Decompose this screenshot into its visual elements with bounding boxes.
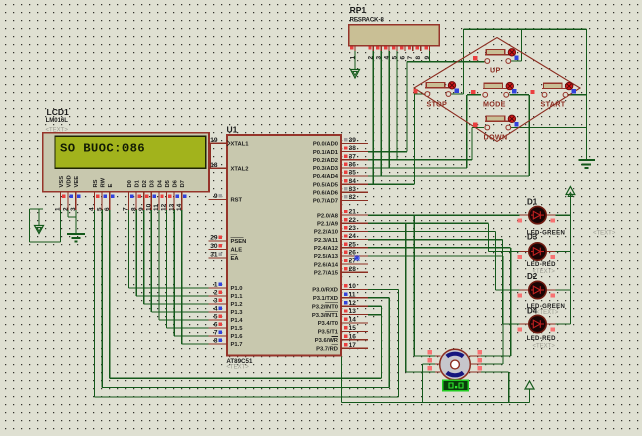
wire P2.4 to motor right top	[368, 247, 511, 249]
svg-text:4: 4	[89, 207, 96, 211]
svg-text:<TEXT>: <TEXT>	[533, 344, 556, 350]
svg-text:D6: D6	[173, 179, 179, 187]
svg-text:D3: D3	[527, 232, 538, 241]
svg-text:P2.7/A15: P2.7/A15	[314, 271, 339, 277]
svg-text:7: 7	[214, 330, 218, 337]
wire P3.3 stub join	[368, 314, 381, 316]
push button DOWN	[485, 125, 490, 130]
svg-text:DOWN: DOWN	[484, 133, 508, 142]
svg-text:P3.6/WR: P3.6/WR	[315, 338, 339, 344]
svg-text:D2: D2	[142, 180, 148, 187]
svg-text:37: 37	[349, 153, 357, 160]
svg-text:MODE: MODE	[483, 100, 506, 109]
svg-text:39: 39	[349, 137, 357, 144]
U1 pin 21 P2.0/A8	[341, 214, 368, 216]
wire motor right bottom to bottom bus	[481, 371, 509, 373]
svg-text:10: 10	[146, 203, 153, 211]
wire P2.2 to LED D2	[368, 230, 496, 232]
RP1 pin 6	[404, 46, 406, 51]
wire motor left mid to bottom bus	[422, 363, 439, 365]
svg-text:D1: D1	[135, 179, 141, 187]
wire LCD RW to P3.1	[101, 209, 103, 388]
svg-text:28: 28	[349, 266, 357, 273]
svg-text:P1.5: P1.5	[231, 326, 244, 332]
svg-text:P1.7: P1.7	[231, 342, 243, 348]
U1 pin 2 P1.1	[208, 295, 227, 297]
push button UP	[485, 59, 490, 64]
svg-text:34: 34	[349, 178, 357, 185]
svg-text:3: 3	[70, 207, 77, 211]
svg-text:12: 12	[349, 300, 357, 307]
svg-text:P3.1/TXD: P3.1/TXD	[313, 296, 338, 302]
RP1 pin 1	[354, 46, 356, 51]
wire LED right stubs	[556, 214, 571, 216]
svg-text:XTAL2: XTAL2	[231, 166, 249, 172]
svg-text:P3.2/INT0: P3.2/INT0	[312, 304, 338, 310]
svg-text:P2.0/A8: P2.0/A8	[317, 213, 339, 219]
U1 pin 35 P0.4/AD4	[341, 175, 368, 177]
svg-text:LED-RED: LED-RED	[527, 336, 556, 342]
svg-text:VDD: VDD	[67, 175, 73, 187]
svg-text:5: 5	[391, 56, 398, 60]
svg-text:9: 9	[214, 193, 218, 200]
svg-text:P2.4/A12: P2.4/A12	[314, 246, 338, 252]
svg-text:32: 32	[349, 194, 357, 201]
wire bottom bus	[342, 402, 530, 404]
ground arrow below LCD pin1	[35, 226, 44, 234]
svg-text:29: 29	[210, 235, 218, 242]
svg-text:RS: RS	[93, 179, 99, 187]
svg-text:2: 2	[214, 290, 218, 297]
motor pin stubs	[435, 355, 441, 357]
U1 pin 15 P3.5/T1	[341, 330, 368, 332]
wire P2.3 to LED D4	[368, 239, 503, 241]
U1 pin 38 P0.1/AD1	[341, 151, 368, 153]
U1 pin 25 P2.4/A12	[341, 247, 368, 249]
LED D1 LED-GREEN	[520, 214, 529, 216]
wire LCD data staircase D0-D7 to P1.0-P1.7	[128, 209, 130, 288]
svg-text:LED-RED: LED-RED	[527, 262, 556, 268]
svg-text:U1: U1	[227, 125, 238, 135]
svg-text:10: 10	[349, 283, 357, 290]
LCD screen	[55, 136, 206, 168]
U1 pin 28 P2.7/A15	[341, 271, 368, 273]
svg-text:P1.2: P1.2	[231, 302, 243, 308]
svg-text:P2.3/A11: P2.3/A11	[314, 238, 339, 244]
U1 pin 6 P1.5	[208, 327, 227, 329]
RP1 pin 5	[396, 46, 398, 51]
ground below LCD pin3	[67, 233, 85, 235]
wire top rail UP.right MODE-P0.3 START.right	[464, 28, 587, 30]
svg-text:START: START	[541, 100, 566, 109]
U1 pin 18 XTAL2	[208, 167, 227, 169]
motor pin pads	[428, 350, 432, 354]
RP1 pin 8	[420, 46, 422, 51]
RP1 pin 7	[412, 46, 414, 51]
svg-text:11: 11	[153, 204, 160, 211]
svg-text:11: 11	[349, 291, 356, 298]
svg-text:8: 8	[415, 56, 422, 60]
svg-text:P2.5/A13: P2.5/A13	[314, 254, 339, 260]
U1 pin 22 P2.1/A9	[341, 222, 368, 224]
RP1 pin 2	[372, 46, 374, 51]
svg-text:22: 22	[349, 217, 357, 224]
svg-text:6: 6	[104, 207, 111, 211]
svg-text:1: 1	[214, 282, 218, 289]
stepper motor	[440, 349, 471, 380]
svg-text:15: 15	[349, 325, 357, 332]
power arrow bottom	[525, 381, 534, 389]
svg-text:VEE: VEE	[74, 176, 80, 188]
U1 pin 12 P3.2/INT0	[341, 305, 368, 307]
U1 pin 26 P2.5/A13	[341, 255, 368, 257]
svg-text:P0.6/AD6: P0.6/AD6	[313, 191, 339, 197]
svg-text:XTAL1: XTAL1	[231, 141, 250, 147]
svg-text:P0.0/AD0: P0.0/AD0	[313, 142, 338, 148]
svg-text:D7: D7	[180, 180, 186, 187]
svg-text:9: 9	[424, 56, 431, 60]
svg-text:25: 25	[349, 241, 357, 248]
U1 pin 8 P1.7	[208, 343, 227, 345]
svg-text:3: 3	[376, 56, 383, 60]
RP1 pin 4	[388, 46, 390, 51]
svg-text:VSS: VSS	[59, 176, 65, 188]
svg-text:P3.5/T1: P3.5/T1	[318, 330, 339, 336]
svg-text:D2: D2	[527, 272, 538, 281]
svg-text:D4: D4	[157, 179, 163, 187]
svg-text:P1.0: P1.0	[231, 286, 243, 292]
junction marker blue cross	[354, 255, 360, 261]
svg-text:<TEXT>: <TEXT>	[536, 310, 559, 316]
svg-text:6: 6	[399, 56, 406, 60]
wire P0.1 RP1.6 RP1.9 STOP.right net	[368, 151, 407, 153]
svg-text:33: 33	[349, 186, 357, 193]
svg-text:UP: UP	[490, 66, 501, 75]
wire LCD E to P3.2	[109, 209, 111, 378]
wire P2.5 to motor right mid	[368, 255, 503, 257]
U1 pin 3 P1.2	[208, 303, 227, 305]
svg-text:1: 1	[349, 56, 356, 60]
wire LCD VSS ground loop	[60, 209, 62, 242]
svg-text:D3: D3	[150, 179, 156, 187]
U1 pin 1 P1.0	[208, 287, 227, 289]
svg-text:LCD1: LCD1	[47, 107, 69, 117]
svg-text:21: 21	[349, 209, 357, 216]
svg-text:RST: RST	[231, 198, 243, 204]
U1 pin 34 P0.5/AD5	[341, 183, 368, 185]
svg-text:36: 36	[349, 162, 357, 169]
svg-text:4: 4	[214, 306, 218, 313]
U1 pin 39 P0.0/AD0	[341, 143, 368, 145]
push button MODE	[483, 92, 488, 97]
svg-text:D0: D0	[127, 180, 133, 187]
svg-text:14: 14	[349, 317, 357, 324]
svg-text:P0.7/AD7: P0.7/AD7	[313, 199, 338, 205]
U1 pin 13 P3.3/INT1	[341, 314, 368, 316]
ground symbol right	[579, 159, 596, 161]
svg-text:SO BUOC:086: SO BUOC:086	[60, 142, 145, 156]
svg-text:RW: RW	[101, 177, 107, 187]
svg-text:P3.7/RD: P3.7/RD	[316, 346, 338, 352]
svg-text:7: 7	[123, 207, 130, 211]
wire diamond routing	[414, 38, 580, 142]
wire MODE.right DOWN.right to P0.4 and ground rail	[510, 94, 530, 96]
svg-text:9: 9	[138, 207, 145, 211]
svg-text:1: 1	[55, 207, 62, 211]
svg-text:16: 16	[349, 333, 357, 340]
wire LED anode rail	[569, 195, 571, 324]
svg-text:13: 13	[349, 308, 357, 315]
U1 pin 19 XTAL1	[208, 142, 227, 144]
U1 pin 29 PSEN	[208, 240, 227, 242]
svg-text:P0.1/AD1: P0.1/AD1	[313, 150, 339, 156]
wire P0.4 RP1.3 net	[368, 175, 529, 177]
svg-text:2: 2	[368, 56, 375, 60]
svg-text:35: 35	[349, 170, 357, 177]
svg-text:19: 19	[210, 137, 218, 144]
wire P0.2 RP1.5 DOWN.left net	[368, 159, 472, 161]
svg-text:RP1: RP1	[350, 5, 367, 15]
motor speed readout	[443, 380, 469, 391]
svg-text:4: 4	[384, 56, 391, 60]
svg-text:P1.1: P1.1	[231, 294, 244, 300]
wire P2.1 to LED D3 and motor	[368, 222, 489, 224]
wire XTAL1-XTAL2 link	[209, 143, 211, 168]
RP1 pin 3	[380, 46, 382, 51]
svg-text:31: 31	[210, 252, 218, 259]
push button STOP	[425, 92, 430, 97]
U1 pin 5 P1.4	[208, 319, 227, 321]
svg-text:6: 6	[214, 322, 218, 329]
LED D4 LED-RED	[520, 323, 529, 325]
svg-text:P1.6: P1.6	[231, 334, 244, 340]
svg-text:2: 2	[62, 207, 69, 211]
U1 pin 30 ALE	[208, 249, 227, 251]
svg-text:38: 38	[349, 145, 357, 152]
svg-text:P0.4/AD4: P0.4/AD4	[313, 174, 339, 180]
svg-text:<TEXT>: <TEXT>	[226, 364, 249, 370]
svg-text:RESPACK-8: RESPACK-8	[350, 17, 385, 23]
svg-text:7: 7	[407, 56, 414, 60]
svg-text:P3.4/T0: P3.4/T0	[318, 321, 338, 327]
svg-text:P1.3: P1.3	[231, 310, 244, 316]
svg-text:3: 3	[214, 298, 218, 305]
U1 pin 10 P3.0/RXD	[341, 288, 368, 290]
U1 pin 32 P0.7/AD7	[341, 200, 368, 202]
svg-text:13: 13	[168, 203, 175, 211]
U1 pin 16 P3.6/WR	[341, 339, 368, 341]
svg-text:EA: EA	[231, 256, 240, 262]
svg-text:P2.1/A9: P2.1/A9	[317, 222, 339, 228]
LCD pins with numbers	[60, 192, 62, 210]
svg-text:E: E	[108, 184, 114, 188]
svg-text:27: 27	[349, 258, 357, 265]
push button START	[542, 92, 547, 97]
wire P2.0 to LED D1 and motor	[368, 214, 520, 216]
U1 pin 37 P0.2/AD2	[341, 159, 368, 161]
svg-text:14: 14	[176, 203, 183, 211]
wire P0.3 RP1.4 MODE.left net	[368, 167, 467, 169]
LED D3 LED-RED	[520, 251, 529, 253]
svg-text:5: 5	[96, 207, 103, 211]
LED D2 LED-GREEN	[520, 289, 529, 291]
svg-text:12: 12	[161, 203, 168, 211]
wire P0.5 RP1.2 RP1.7 STOP.left net	[368, 183, 414, 185]
svg-text:P2.6/A14: P2.6/A14	[314, 262, 339, 268]
svg-text:PSEN: PSEN	[231, 239, 247, 245]
U1 pin 7 P1.6	[208, 335, 227, 337]
U1 pin 33 P0.6/AD6	[341, 191, 368, 193]
svg-text:23: 23	[349, 225, 357, 232]
U1 pin 24 P2.3/A11	[341, 239, 368, 241]
svg-text:<TEXT>: <TEXT>	[593, 231, 616, 237]
U1 pin 27 P2.6/A14	[341, 263, 368, 265]
svg-text:8: 8	[130, 207, 137, 211]
svg-text:P3.0/RXD: P3.0/RXD	[312, 288, 338, 294]
U1 pin 23 P2.2/A10	[341, 230, 368, 232]
svg-text:5: 5	[214, 314, 218, 321]
svg-text:24: 24	[349, 233, 357, 240]
svg-text:P0.3/AD3: P0.3/AD3	[313, 166, 339, 172]
svg-text:P2.2/A10: P2.2/A10	[314, 230, 338, 236]
wire LCD RS to P3.0	[94, 209, 96, 397]
svg-text:P0.2/AD2: P0.2/AD2	[313, 158, 338, 164]
RP1 pin 9	[429, 46, 431, 51]
svg-text:LM016L: LM016L	[46, 118, 69, 124]
svg-text:P1.4: P1.4	[231, 318, 244, 324]
svg-text:P0.5/AD5: P0.5/AD5	[313, 182, 339, 188]
U1 pin 17 P3.7/RD	[341, 347, 368, 349]
svg-text:8: 8	[214, 338, 218, 345]
svg-text:30: 30	[210, 243, 218, 250]
U1 pin 36 P0.3/AD3	[341, 167, 368, 169]
svg-text:17: 17	[349, 342, 357, 349]
U1 pin 4 P1.3	[208, 311, 227, 313]
svg-text:STOP: STOP	[427, 100, 448, 109]
svg-text:P3.3/INT1: P3.3/INT1	[312, 313, 339, 319]
wire LCD VDD-VEE	[67, 209, 69, 217]
svg-text:ALE: ALE	[231, 248, 243, 254]
U1 pin 14 P3.4/T0	[341, 322, 368, 324]
svg-text:D5: D5	[165, 179, 171, 187]
U1 pin 31 EA	[208, 257, 227, 259]
power arrow LED rail	[566, 187, 575, 195]
svg-text:D1: D1	[527, 198, 538, 207]
U1 pin 9 RST	[208, 198, 227, 200]
svg-text:18: 18	[210, 162, 218, 169]
wire RP1 pin1 ground arrow	[354, 51, 356, 70]
U1 pin 11 P3.1/TXD	[341, 297, 368, 299]
